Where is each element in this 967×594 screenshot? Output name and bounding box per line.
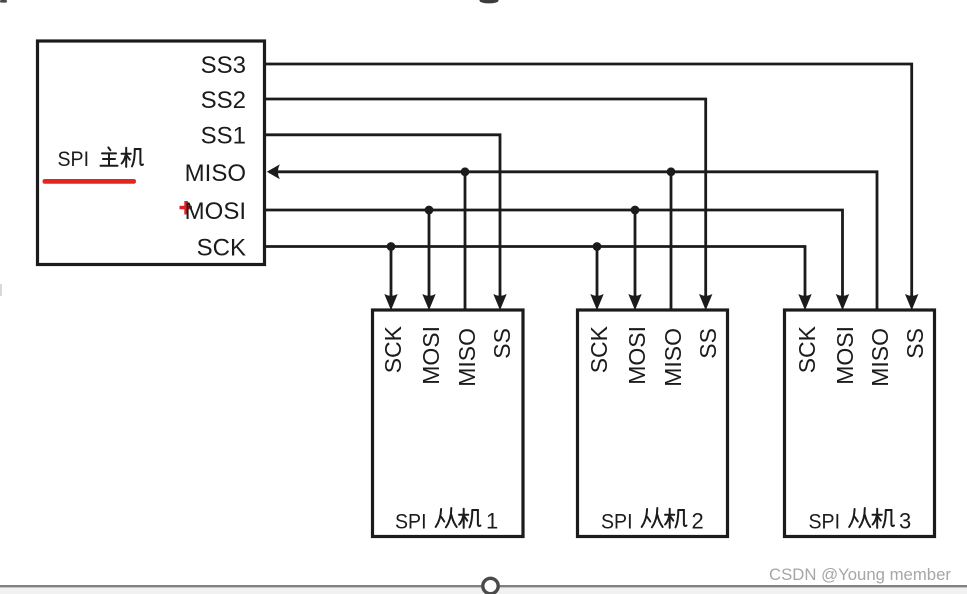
svg-text:SS1: SS1: [201, 123, 246, 150]
svg-text:SPI: SPI: [395, 510, 427, 534]
pin label SS3 (master): [201, 52, 246, 79]
svg-text:SCK: SCK: [586, 325, 612, 373]
pin label SCK (slave 1): [380, 325, 406, 373]
arrowhead SCK into slave 1: [384, 294, 397, 310]
junction SCK / slave 2: [593, 242, 602, 251]
pin label MOSI (slave 2): [624, 326, 650, 385]
svg-text:MISO: MISO: [185, 160, 246, 187]
pin label MISO (slave 1): [454, 328, 480, 387]
junction SCK / slave 1: [387, 242, 396, 251]
wire SS3: master to slave 3 SS: [265, 64, 912, 297]
wire SCK tap to slave 1: [390, 247, 393, 298]
label: SPI 主机 (master): [58, 147, 144, 171]
svg-text:SS: SS: [695, 328, 721, 359]
pin label MOSI (slave 3): [832, 326, 858, 385]
svg-text:3: 3: [899, 509, 911, 534]
junction MOSI / slave 2: [631, 206, 640, 215]
red underline annotation under SPI 主机: [43, 179, 137, 184]
label: SPI 从机 3: [809, 508, 912, 534]
block: SPI slave 3 box: [785, 310, 935, 537]
pin label SS (slave 2): [695, 328, 721, 359]
block: SPI slave 1 box: [373, 310, 524, 537]
pin label SS2 (master): [201, 87, 246, 114]
junction MOSI / slave 1: [425, 206, 434, 215]
wire MISO tap to slave 1: [464, 172, 467, 311]
pin label SCK (slave 3): [794, 325, 820, 373]
pin label MOSI (slave 1): [418, 326, 444, 385]
svg-text:SS: SS: [489, 328, 515, 359]
svg-text:SPI: SPI: [601, 510, 633, 534]
label: SPI 从机 1: [395, 508, 498, 534]
pin label SCK (slave 2): [586, 325, 612, 373]
label: SPI 从机 2: [601, 508, 704, 534]
svg-text:SPI: SPI: [58, 147, 90, 171]
svg-text:MISO: MISO: [660, 328, 686, 387]
block U1: SPI master box: [38, 41, 265, 265]
svg-text:MOSI: MOSI: [832, 326, 858, 385]
stray dark artifact top-left corner: [0, 0, 7, 3]
block: SPI slave 2 box: [578, 310, 728, 537]
slider track line: [0, 585, 967, 587]
svg-text:MOSI: MOSI: [418, 326, 444, 385]
arrowhead SS2 into slave 2: [699, 294, 712, 310]
arrowhead MISO into master: [267, 164, 280, 179]
grey footer band below slider: [0, 587, 967, 594]
svg-text:MISO: MISO: [867, 328, 893, 387]
wire SS2: master to slave 2 SS: [265, 99, 706, 297]
wire SCK tap to slave 2: [596, 247, 599, 298]
wire SCK bus: master to slave 3: [265, 247, 805, 298]
arrowhead SCK into slave 2: [590, 294, 603, 310]
svg-text:SPI: SPI: [809, 510, 841, 534]
junction MISO / slave 1: [461, 167, 470, 176]
svg-text:SS3: SS3: [201, 52, 246, 79]
svg-text:CSDN @Young member: CSDN @Young member: [769, 566, 952, 584]
arrowhead MOSI into slave 2: [628, 294, 641, 310]
pin label MISO (master): [185, 160, 246, 187]
stray dark artifact top-center (cut-off shape): [480, 0, 499, 3]
wire MOSI bus: master to slave 3: [265, 210, 843, 297]
junction MISO / slave 2: [667, 167, 676, 176]
svg-text:SCK: SCK: [197, 235, 246, 262]
wire MISO tap to slave 2: [670, 172, 673, 311]
pin label SS1 (master): [201, 123, 246, 150]
pin label MISO (slave 3): [867, 328, 893, 387]
faint smudge left edge: [0, 284, 2, 296]
svg-text:SCK: SCK: [794, 325, 820, 373]
pin label SS (slave 1): [489, 328, 515, 359]
arrowhead SS1 into slave 1: [493, 294, 506, 310]
svg-text:SCK: SCK: [380, 325, 406, 373]
svg-text:SS: SS: [902, 328, 928, 359]
arrowhead SCK into slave 3: [798, 294, 811, 310]
svg-text:MOSI: MOSI: [624, 326, 650, 385]
arrowhead MOSI into slave 1: [422, 294, 435, 310]
wire SS1: master to slave 1 SS: [265, 135, 500, 297]
arrowhead SS3 into slave 3: [905, 294, 918, 310]
svg-text:MOSI: MOSI: [185, 198, 246, 225]
svg-text:2: 2: [692, 509, 704, 534]
watermark CSDN @Young member: [769, 566, 952, 584]
pin label MOSI (master): [185, 198, 246, 225]
wire MISO bus: slave 3 to master: [269, 172, 877, 311]
svg-text:SS2: SS2: [201, 87, 246, 114]
pin label SCK (master): [197, 235, 246, 262]
arrowhead MOSI into slave 3: [836, 294, 849, 310]
pin label MISO (slave 2): [660, 328, 686, 387]
svg-text:1: 1: [486, 509, 498, 534]
pin label SS (slave 3): [902, 328, 928, 359]
wire MOSI tap to slave 2: [634, 210, 637, 297]
svg-text:MISO: MISO: [454, 328, 480, 387]
wire MOSI tap to slave 1: [428, 210, 431, 297]
red cursor cross near MOSI: [180, 201, 193, 215]
slider knob: [483, 578, 498, 593]
